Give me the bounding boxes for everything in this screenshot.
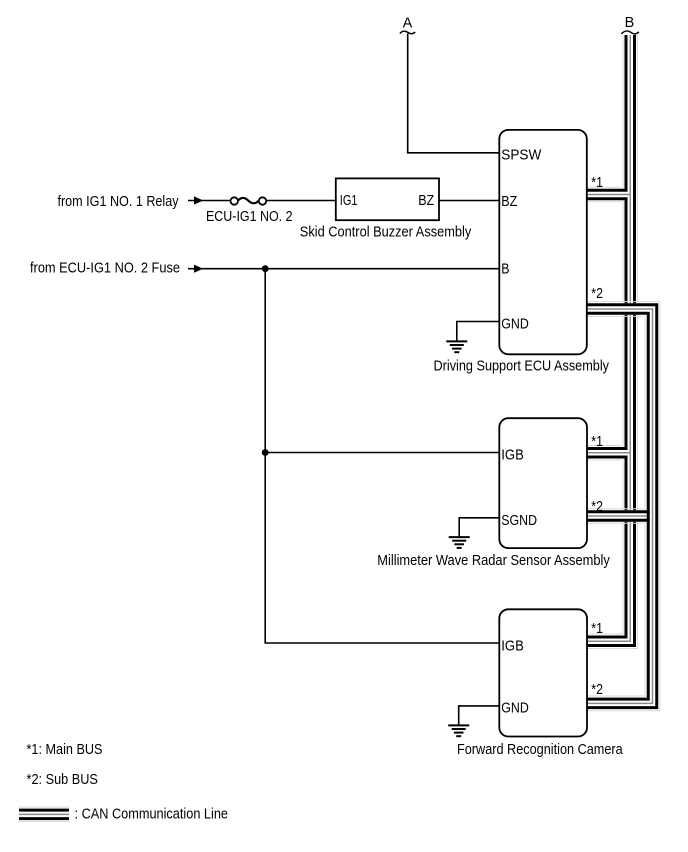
svg-text:*2: Sub BUS: *2: Sub BUS [27,771,98,788]
svg-text:*1: Main BUS: *1: Main BUS [27,741,103,758]
svg-text:B: B [625,15,635,31]
wire A to SPSW [408,34,499,153]
svg-text:*1: *1 [591,620,603,637]
wire feed rail vertical [265,269,499,643]
svg-text:BZ: BZ [501,193,517,210]
svg-text:GND: GND [501,700,529,717]
svg-text:ECU-IG1 NO. 2: ECU-IG1 NO. 2 [206,208,293,225]
driving support ECU assembly box U1 [499,130,587,354]
svg-text:SPSW: SPSW [501,147,542,164]
wire fuse to buzzer box [266,200,336,202]
svg-text:SGND: SGND [501,512,537,529]
svg-text:*2: *2 [591,498,603,515]
legend CAN line symbol [19,807,69,822]
wire fuse feed to ECU pin B [188,268,499,270]
CAN sub bus (ECU *2 right, down, left to camera *2) [587,302,660,711]
svg-text:*1: *1 [591,174,603,191]
svg-text:IG1: IG1 [340,192,358,209]
svg-text:*2: *2 [591,681,603,698]
ground (camera) [448,725,469,736]
ground (ECU) [446,341,467,352]
skid control buzzer assembly box [336,178,439,220]
svg-text:from IG1 NO. 1 Relay: from IG1 NO. 1 Relay [58,193,179,210]
radar *2 bus stub [587,509,650,524]
junction node (B feed rail top) [262,265,269,272]
millimeter wave radar sensor assembly box [499,418,587,548]
svg-text:Skid Control Buzzer Assembly: Skid Control Buzzer Assembly [300,224,472,241]
svg-text:B: B [501,261,509,278]
wire relay to fuse [188,200,231,202]
svg-text:: CAN Communication Line: : CAN Communication Line [75,806,229,823]
wire radar SGND [459,518,499,537]
svg-text:Forward Recognition Camera: Forward Recognition Camera [457,741,623,758]
svg-text:BZ: BZ [418,192,434,209]
junction node (radar IGB tap) [262,449,269,456]
arrow (fuse feed) [194,265,203,273]
wire camera GND [459,706,500,725]
node A [400,16,415,34]
svg-text:GND: GND [501,316,529,333]
svg-text:*1: *1 [591,433,603,450]
arrow (relay feed) [194,196,203,204]
node B [621,15,638,34]
svg-text:Driving Support ECU Assembly: Driving Support ECU Assembly [434,358,610,375]
wire buzzer BZ to ECU BZ [439,200,499,202]
svg-text:A: A [403,16,413,32]
ECU *1 bus stub [587,187,631,202]
svg-text:IGB: IGB [501,638,524,655]
svg-text:Millimeter Wave Radar Sensor A: Millimeter Wave Radar Sensor Assembly [377,552,610,569]
ground (radar) [449,537,470,548]
svg-text:*2: *2 [591,285,603,302]
svg-text:IGB: IGB [501,447,524,464]
svg-text:from ECU-IG1 NO. 2 Fuse: from ECU-IG1 NO. 2 Fuse [30,260,180,277]
forward recognition camera box [499,609,587,736]
radar *1 bus stub [587,445,631,460]
wire ECU GND [457,322,500,342]
fuse ECU-IG1 NO. 2 [231,197,267,204]
CAN main bus (vertical at x=630 down to camera *1 stub) [587,35,638,649]
wire to radar IGB [265,452,499,454]
